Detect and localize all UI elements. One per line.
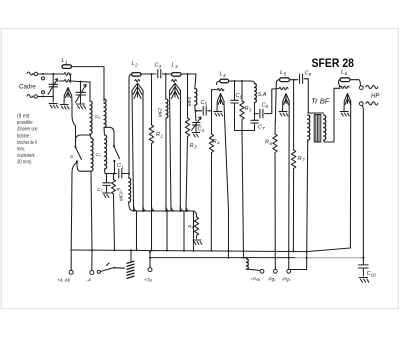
wire L4 right rail (229, 80, 251, 82)
coil L6 (339, 70, 351, 88)
svg-text:3: 3 (175, 64, 178, 69)
tap coil B to switch S2 top (104, 127, 114, 145)
wire input top run (38, 74, 71, 81)
junction R5 bottom (241, 130, 243, 132)
wire HP bottom terminal down to C10 node (362, 106, 364, 258)
wire L4 left drop (217, 81, 220, 85)
wire R1 to bus 211 (151, 144, 153, 212)
resistor R6 (265, 134, 277, 153)
junction C1 to grid wire (128, 173, 130, 175)
wire MF1 to bus 211 (129, 203, 134, 212)
terminal -Pg2 (287, 269, 291, 273)
svg-text:4: 4 (217, 141, 220, 146)
svg-text:possible: possible (17, 120, 33, 126)
wire grid run 81 (59, 81, 90, 82)
variable capacitor C4 (192, 117, 205, 133)
tap coil A to switch S1 top (76, 135, 91, 146)
oscillator coil C (91, 138, 93, 171)
transformer top yoke (308, 112, 324, 114)
tube V4 filament (283, 94, 290, 270)
svg-text:MF3: MF3 (187, 96, 192, 106)
svg-text:R₈: R₈ (188, 224, 193, 229)
svg-text:Tr BF: Tr BF (311, 97, 330, 106)
grid resistor wavy tube V1 (135, 80, 140, 82)
svg-text:R₂: R₂ (117, 187, 122, 192)
coil L1 (62, 58, 72, 68)
terminal -4 (90, 271, 94, 275)
wire coil B to coil D (103, 128, 106, 135)
svg-text:R: R (156, 132, 160, 138)
bus B faint right part (295, 257, 363, 259)
tap coil C to switch S1 bottom (77, 163, 91, 172)
wire R2 down to bus A (114, 197, 115, 250)
wire primary bottom to terminal Pg2 (291, 269, 307, 271)
switch S1 (70, 146, 82, 163)
capacitor C7 (251, 114, 265, 131)
terminal antenna bottom (34, 95, 37, 98)
IF transformer MF1 (119, 178, 131, 202)
wire coil C down to bus A (91, 171, 92, 250)
resistor (grid leak) wavy 1 (64, 73, 71, 76)
wire grid down to MF1 (128, 174, 130, 179)
svg-text:5: 5 (205, 102, 208, 107)
wire C6/C7 bottoms joined (235, 130, 255, 132)
capacitor C3 (141, 63, 172, 79)
wire L5 left drop to R6 (275, 80, 280, 134)
bus 211 junction curves (134, 206, 190, 211)
svg-text:3: 3 (159, 64, 162, 69)
svg-text:R: R (265, 140, 269, 146)
junction C5 tap (195, 110, 197, 112)
transformer core (314, 115, 321, 143)
ground under tube V5 (340, 112, 349, 117)
terminal +Ta (148, 268, 152, 272)
small choke coil bottom right (247, 259, 249, 270)
svg-text:4: 4 (202, 128, 205, 133)
svg-text:C₂: C₂ (97, 187, 102, 192)
junction VC2 top (80, 81, 82, 83)
wire switch S1 to bottom bus (71, 162, 77, 250)
svg-text:9: 9 (309, 72, 312, 77)
svg-text:broches de 4: broches de 4 (17, 140, 37, 146)
filament rheostat (127, 249, 135, 278)
svg-text:3: 3 (194, 145, 197, 150)
wire L1 to oscillator coil B (72, 67, 105, 101)
wire secondary bottom to riser (324, 88, 340, 142)
svg-text:Cadre ·: Cadre · (19, 84, 40, 91)
ground under C10 (359, 278, 369, 283)
svg-text:+Ta: +Ta (144, 278, 152, 283)
svg-text:-Pg₂: -Pg₂ (282, 277, 291, 282)
wire R4 down to bus A (210, 153, 212, 252)
svg-text:(Il est: (Il est (17, 114, 30, 120)
capacitor C10 (359, 258, 376, 278)
oscillator coil A (90, 101, 92, 134)
svg-text:S.A: S.A (258, 92, 267, 98)
svg-text:mm,: mm, (17, 147, 25, 153)
coil L3 (172, 63, 182, 77)
capacitor C5 (196, 100, 212, 115)
wire R5 down to bus B (242, 131, 244, 259)
wire R7 down to bus A (292, 169, 294, 252)
svg-text:-Pg₁: -Pg₁ (267, 277, 276, 282)
HP terminal top (359, 86, 363, 90)
svg-text:R: R (298, 156, 302, 162)
variable capacitor VC2 (oscillator) (76, 82, 87, 103)
resistor R8 (188, 217, 199, 239)
capacitor C9 (300, 71, 312, 84)
junction C8 node (254, 113, 256, 115)
svg-text:8: 8 (266, 104, 269, 109)
wire L2 left grid drop (129, 74, 132, 173)
ground under C4 (192, 133, 200, 138)
junction VC1 top (52, 73, 54, 75)
ground under VC1 (49, 104, 58, 109)
resistor R2 (112, 174, 122, 197)
filament switch (97, 263, 124, 273)
switch S2 (113, 145, 120, 174)
svg-text:C₀: C₀ (95, 114, 100, 119)
svg-text:MF1: MF1 (119, 191, 124, 201)
junction R7 tap (293, 79, 295, 81)
svg-text:6: 6 (345, 71, 348, 76)
wire L6 right to HP terminal (350, 80, 361, 86)
bus 211 (134, 211, 197, 216)
tube V1 filament (132, 83, 143, 211)
ground under tube V3 (214, 112, 223, 117)
svg-text:5: 5 (249, 108, 252, 113)
tube V2 filament (170, 83, 181, 211)
variable capacitor C tuning (cadre) (48, 74, 58, 102)
tube V3 filament (217, 94, 229, 212)
tube V5 filament (344, 94, 351, 249)
junction R1 tap (151, 73, 153, 75)
wire input bottom run (38, 96, 54, 98)
wire SA to C7/C8 node (254, 103, 256, 114)
svg-text:SFER 28: SFER 28 (312, 58, 355, 70)
resistor wavy 2 (64, 80, 71, 83)
terminal +Pa1 (260, 269, 264, 273)
svg-text:R: R (190, 143, 194, 149)
resistor R3 (185, 118, 197, 150)
wire primary bottom down (307, 141, 308, 270)
wire R7 riser (293, 80, 295, 150)
ground under VC2 (77, 104, 86, 109)
grid resistor wavy tube V4 (279, 87, 288, 90)
svg-text:+4,-80: +4,-80 (57, 278, 71, 283)
coil L2 (132, 61, 142, 76)
junction dots bus A (91, 249, 93, 251)
wire L5 right to C9 (290, 79, 298, 81)
capacitor C8 (255, 103, 272, 118)
wire R1 riser (151, 74, 153, 125)
svg-text:7: 7 (302, 158, 305, 163)
junction dots bus 211 (142, 210, 144, 212)
capacitor C1 (117, 163, 129, 178)
socket circle top (42, 77, 45, 80)
resistor R1 (149, 125, 163, 144)
svg-text:bobine :: bobine : (17, 133, 31, 139)
wire R3 to bus 211 (186, 137, 188, 212)
svg-text:30 mm): 30 mm) (17, 160, 32, 166)
svg-text:6: 6 (270, 141, 273, 146)
resistor R4 (209, 134, 220, 153)
ground under R8 (193, 240, 202, 245)
IF transformer MF3 (187, 74, 197, 106)
junction R5 tap (241, 80, 243, 82)
S.A coil (251, 81, 267, 103)
terminal +4 -80 (69, 270, 73, 274)
oscillator coil B (104, 99, 106, 128)
svg-text:10: 10 (371, 273, 377, 278)
svg-text:HP: HP (371, 94, 379, 100)
transformer primary winding (308, 115, 310, 140)
wire C9 to transformer primary (307, 79, 309, 113)
terminal antenna top (34, 72, 37, 75)
coil L5 (280, 70, 290, 82)
svg-text:5: 5 (284, 72, 287, 77)
svg-text:R: R (245, 106, 249, 112)
transformer secondary winding (324, 115, 326, 140)
wire C8 riser to V4 grid (272, 89, 279, 114)
svg-text:MF2: MF2 (158, 107, 163, 117)
svg-text:7: 7 (262, 126, 265, 131)
svg-text:1: 1 (161, 134, 164, 139)
terminal -Pg1 (273, 269, 277, 273)
grid resistor wavy tube V2 (172, 80, 177, 82)
capacitor C6 (231, 81, 243, 131)
svg-text:+Pa₁: +Pa₁ (251, 277, 261, 282)
ground under tube V4 (279, 112, 288, 117)
verticals bus211 to bus A (137, 211, 194, 251)
wire C5 riser to L4 (212, 90, 218, 111)
resistor R5 (240, 81, 252, 131)
wire R6 down to terminal Pg1 (274, 153, 276, 270)
HP squiggle bottom (366, 102, 378, 105)
wire R3 riser (187, 74, 189, 118)
bus A (71, 248, 350, 252)
svg-text:écartement: écartement (17, 153, 35, 159)
wire R4 riser from C5 node (211, 111, 213, 134)
HP squiggle top (366, 85, 378, 88)
wire grid run down to coil A (89, 82, 91, 101)
junction node bottom input (42, 96, 44, 98)
oscillator coil D (105, 135, 107, 169)
IF transformer MF2 (158, 99, 168, 118)
wire R8 drop (196, 216, 198, 218)
junction R3 tap (187, 73, 189, 75)
ground under tube V0 (60, 105, 69, 110)
grid resistor wavy tube V3 (218, 88, 224, 90)
antenna input squiggle top (27, 72, 33, 75)
antenna input squiggle bottom (27, 95, 33, 98)
wire MF2 to bus 211 (165, 118, 167, 211)
wire tube V3 leg to bus B (228, 211, 230, 258)
coil L4 (220, 72, 229, 83)
wire coil D to C1 run (105, 169, 117, 174)
junction C6 tap (234, 80, 236, 82)
grid resistor wavy tube V5 (340, 86, 349, 89)
wire tube V0 right leg to switch S1 (72, 104, 76, 146)
resistor R7 (291, 150, 305, 169)
junction MF2 tap (165, 73, 167, 75)
capacitor C2 to ground (97, 174, 110, 198)
tube V0 filament arrow (64, 88, 72, 105)
wire choke to terminal Pa1 (247, 269, 261, 271)
HP terminal bottom (359, 102, 363, 106)
wire MF2 riser (165, 74, 167, 99)
svg-text:C₀: C₀ (96, 152, 101, 157)
junction C1 run (113, 173, 115, 175)
svg-text:-4: -4 (87, 278, 92, 283)
junction node top input (42, 73, 44, 75)
svg-text:4: 4 (223, 73, 226, 78)
wire coil A to coil C (90, 134, 91, 138)
wire MF3 to C4 (195, 106, 196, 122)
bus B (150, 257, 295, 259)
socket circle bottom (42, 91, 45, 94)
wire L3 right to MF3 (181, 73, 196, 75)
junction dots bus B (149, 257, 151, 259)
svg-text:d'insérer une: d'insérer une (17, 127, 38, 133)
svg-text:1: 1 (65, 60, 68, 65)
svg-text:2: 2 (134, 63, 138, 68)
